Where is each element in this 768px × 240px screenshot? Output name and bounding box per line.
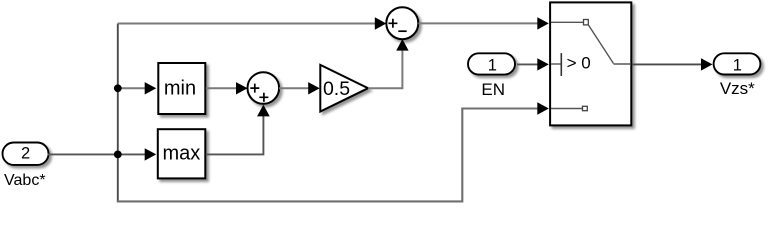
wire: bottom rail into switch bbox=[461, 108, 538, 110]
arrowhead into sum U2 left bbox=[375, 17, 387, 29]
switch output stub bbox=[614, 63, 632, 65]
svg-text:1: 1 bbox=[488, 56, 497, 74]
wire: inport 2 to junction and max bbox=[48, 153, 146, 155]
junction dot at vertical rail (max row) bbox=[114, 151, 122, 159]
svg-text:Vzs*: Vzs* bbox=[720, 79, 755, 98]
switch top port square bbox=[584, 20, 589, 25]
svg-text:EN: EN bbox=[481, 80, 505, 99]
wire: junction to min block bbox=[118, 87, 145, 89]
svg-text:min: min bbox=[164, 78, 196, 100]
arrowhead into switch middle input bbox=[537, 58, 549, 70]
switch diagonal arm bbox=[589, 25, 614, 63]
junction dot at vertical rail (min row) bbox=[114, 84, 122, 92]
inport 2 Vabc* bbox=[3, 143, 49, 165]
outport 1 Vzs* bbox=[714, 53, 761, 74]
switch bottom input stub bbox=[551, 108, 582, 110]
wire: gain output up to sum U2 bottom bbox=[368, 51, 402, 89]
sum U2 (round sum, + -) bbox=[386, 7, 418, 39]
wire: switch output to outport bbox=[632, 63, 702, 65]
switch block U3 bbox=[550, 2, 631, 125]
svg-text:max: max bbox=[163, 142, 201, 164]
svg-text:0.5: 0.5 bbox=[323, 78, 350, 100]
arrowhead into min block bbox=[145, 82, 157, 94]
gain K1 (0.5 triangle) bbox=[320, 65, 368, 112]
arrowhead into sum U1 left bbox=[236, 82, 248, 94]
sum U1 (round sum, + +) bbox=[247, 72, 279, 104]
sum U2 minus sign (bottom input) bbox=[398, 30, 406, 32]
arrowhead into outport 1 bbox=[701, 58, 713, 70]
wire: EN to switch middle input bbox=[517, 63, 538, 65]
arrowhead into max block bbox=[145, 148, 157, 160]
wire: top rail to sum U2 bbox=[118, 23, 376, 25]
switch threshold tick bbox=[560, 53, 562, 76]
wire: vertical rail left bbox=[117, 24, 119, 202]
wire: max output to sum U1 bottom bbox=[206, 115, 264, 154]
sum U2 plus sign (left input) bbox=[388, 19, 397, 28]
switch top input stub bbox=[551, 21, 583, 23]
wire: sum U2 output to switch top input bbox=[418, 22, 537, 24]
wire: min output to sum U1 bbox=[206, 87, 237, 89]
svg-text:1: 1 bbox=[733, 56, 742, 74]
arrowhead into gain bbox=[308, 82, 320, 94]
min block bbox=[158, 63, 205, 114]
arrowhead into switch bottom input bbox=[537, 102, 549, 114]
wire: sum U1 output to gain bbox=[279, 87, 309, 89]
svg-text:Vabc*: Vabc* bbox=[4, 172, 46, 189]
svg-text:> 0: > 0 bbox=[567, 54, 591, 73]
arrowhead into switch top input bbox=[537, 17, 549, 29]
switch bottom port square bbox=[583, 106, 588, 110]
switch middle input stub bbox=[551, 63, 561, 65]
sum U1 plus sign (bottom input) bbox=[259, 93, 268, 102]
arrowhead into sum U2 bottom bbox=[396, 39, 408, 51]
inport 1 EN bbox=[468, 53, 515, 74]
svg-text:2: 2 bbox=[21, 144, 30, 162]
arrowhead into sum U1 bottom bbox=[257, 105, 270, 117]
sum U1 plus sign (left input) bbox=[250, 84, 259, 93]
max block bbox=[158, 129, 206, 178]
wire: bottom rail bbox=[117, 109, 463, 202]
